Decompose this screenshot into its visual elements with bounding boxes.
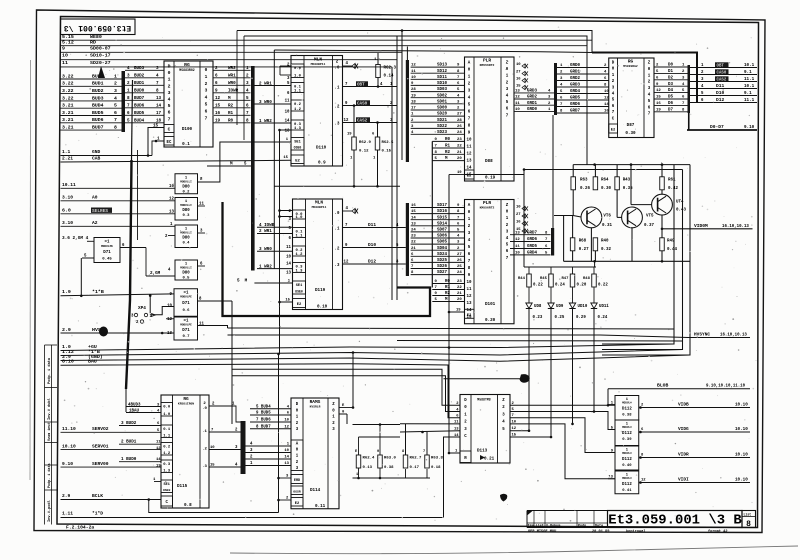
wire upper return bus B (244, 36, 587, 165)
svg-text:6: 6 (205, 108, 208, 114)
svg-text:.3: .3 (335, 123, 340, 127)
svg-text:10.10: 10.10 (62, 443, 76, 449)
svg-text:OSE0: OSE0 (294, 146, 302, 150)
wire VT5 emitter down (631, 228, 633, 261)
svg-text:SE1: SE1 (294, 141, 301, 145)
svg-text:7: 7 (168, 116, 171, 122)
svg-text:14: 14 (286, 263, 291, 267)
svg-text:OSE0: OSE0 (295, 290, 303, 294)
svg-text:0.31: 0.31 (602, 224, 612, 228)
svg-text:0.5: 0.5 (183, 277, 191, 281)
svg-text:11: 11 (467, 146, 472, 150)
svg-text:0.1: 0.1 (163, 428, 171, 432)
resistor R48 (592, 274, 597, 287)
svg-text:0.2: 0.2 (163, 446, 171, 450)
svg-text:13: 13 (286, 272, 291, 276)
svg-text:9.10,10.10,11.10: 9.10,10.10,11.10 (706, 385, 746, 389)
diode UD8 (528, 288, 530, 304)
svg-text:M588BP11: M588BP11 (311, 62, 326, 66)
svg-text:R61: R61 (668, 179, 676, 183)
D114 A pin cells (291, 440, 303, 471)
svg-text:9.10: 9.10 (62, 461, 73, 467)
svg-text:MODUL#: MODUL# (622, 402, 632, 405)
wire SERVO2 (61, 431, 162, 433)
svg-text:R43: R43 (623, 179, 631, 183)
svg-text:0.3: 0.3 (183, 214, 191, 218)
svg-text:E2: E2 (467, 314, 472, 318)
resistor R62.5 (375, 137, 380, 150)
wire SD20-27 (61, 66, 393, 68)
svg-text:Data: Data (595, 525, 603, 529)
scan edge curve bottom (230, 546, 798, 554)
D110 E2 cell (291, 155, 304, 164)
svg-text:8.10: 8.10 (62, 359, 74, 365)
svg-text:0.25: 0.25 (555, 316, 565, 320)
svg-text:10: 10 (467, 281, 472, 285)
wire D11 from D119 (343, 227, 406, 229)
svg-text:6: 6 (168, 110, 171, 116)
scan noise speckles (64, 26, 757, 521)
svg-text:2: 2 (168, 83, 171, 89)
wire GND long run (61, 355, 691, 361)
svg-text:5: 5 (114, 103, 117, 109)
wires R62.4 R63.0 top (358, 437, 360, 455)
svg-text:0.45: 0.45 (102, 258, 112, 262)
svg-text:1.1: 1.1 (163, 434, 171, 438)
resistor R47 (570, 274, 575, 287)
gate D112 0.41 body (615, 471, 639, 494)
D115 C cell (161, 496, 173, 506)
svg-text:OGSR: OGSR (293, 489, 301, 493)
svg-text:E2: E2 (297, 303, 302, 307)
svg-text:M588TM8: M588TM8 (477, 398, 491, 402)
svg-text:27: 27 (516, 70, 521, 74)
resistor R43 (615, 177, 620, 190)
bus bar D87 outputs (688, 65, 691, 113)
svg-text:VIDG: VIDG (678, 426, 689, 432)
PLA D101 body (465, 200, 515, 324)
wire riser to upper bus (236, 31, 238, 126)
diode column drops (528, 309, 530, 431)
svg-text:0.26: 0.26 (580, 187, 590, 191)
wire SERV00 (61, 466, 162, 468)
svg-text:Et3.059.001 \3: Et3.059.001 \3 (64, 23, 132, 32)
svg-text:XP4: XP4 (138, 306, 146, 311)
svg-text:0.44: 0.44 (667, 248, 677, 252)
riser x232 (231, 301, 233, 424)
svg-text:format A2: format A2 (708, 529, 728, 534)
svg-text:0.21: 0.21 (484, 457, 495, 462)
wire 10.11 to D80 (61, 187, 176, 189)
svg-text:R62.4: R62.4 (363, 457, 375, 461)
svg-text:D113: D113 (477, 449, 488, 454)
svg-text:0.9: 0.9 (318, 161, 326, 166)
resistor R44 (527, 274, 532, 287)
svg-text:1.3: 1.3 (163, 469, 171, 473)
wire D115 out .0 (209, 406, 241, 422)
wire GRD top bar to lower bar (552, 115, 554, 228)
wire CAS0 from D110 (343, 105, 398, 107)
svg-text:16: 16 (516, 220, 521, 224)
register D87 body (609, 58, 654, 138)
wire SELRES to D80 (61, 213, 176, 215)
svg-text:Inv.#-podl: Inv.#-podl (47, 499, 52, 522)
svg-text:A0: A0 (92, 195, 98, 201)
svg-text:F.2.104-2a: F.2.104-2a (66, 525, 94, 531)
svg-text:C: C (168, 127, 171, 133)
wire M into D119 SE1 (254, 282, 292, 284)
svg-text:BUD4: BUD4 (92, 103, 104, 109)
wire E2 input D114 (279, 499, 292, 501)
svg-text:5.15: 5.15 (62, 34, 74, 40)
D88 E2 cell (465, 170, 475, 179)
svg-text:1.0: 1.0 (296, 216, 304, 220)
resistor R62.3 (376, 65, 381, 78)
svg-text:EC: EC (167, 141, 172, 145)
wire upper return bus A (237, 31, 592, 53)
D87 E2 cell (609, 124, 618, 133)
D114 E2 cell (291, 498, 303, 507)
svg-text:11: 11 (285, 100, 290, 104)
diode UD10 (572, 288, 574, 304)
resistor R68 (570, 238, 575, 251)
E2 chain vertical (448, 175, 450, 454)
svg-text:KM556RT2: KM556RT2 (480, 63, 495, 67)
D114 ERD cell (291, 475, 303, 484)
multiplexer D119 body (293, 199, 343, 310)
svg-text:KM556RT2: KM556RT2 (480, 206, 495, 210)
svg-text:13: 13 (467, 302, 472, 306)
svg-text:3.21: 3.21 (62, 117, 74, 123)
svg-text:CAS2: CAS2 (357, 118, 368, 123)
wire *1*B to D71 pin9 (61, 294, 175, 296)
resistor R45 (549, 274, 554, 287)
wire BAU long run feeds D113 (61, 364, 461, 418)
resistor R40 (593, 238, 598, 251)
svg-text:SERVO1: SERVO1 (92, 443, 109, 449)
svg-text:1.12: 1.12 (62, 349, 74, 355)
svg-text:6.0: 6.0 (62, 208, 71, 214)
svg-text:5: 5 (205, 102, 208, 108)
svg-text:D12: D12 (368, 259, 376, 265)
gate D71 0.45 body (94, 238, 120, 263)
svg-text:3.22: 3.22 (62, 73, 74, 79)
title block main box (608, 511, 743, 528)
svg-text:3.21: 3.21 (62, 125, 74, 131)
svg-text:0.41: 0.41 (622, 489, 632, 493)
svg-text:Vzam inv#: Vzam inv# (47, 423, 52, 441)
svg-text:0.24: 0.24 (555, 284, 565, 288)
svg-text:E2: E2 (295, 502, 300, 506)
svg-text:0.2: 0.2 (294, 103, 302, 107)
top-left rotated title box Et3.059.001 (61, 19, 136, 35)
wire UT4 emitter to VIDOM (661, 215, 663, 238)
D114 OGSR cell (291, 486, 303, 495)
resistor R62.4 (356, 455, 361, 468)
svg-text:11: 11 (199, 203, 204, 207)
svg-text:1: 1 (157, 137, 160, 142)
transistor UT4 (652, 194, 673, 215)
resistor R62.9 (352, 137, 357, 150)
bus bar D115 to D114 thick (241, 421, 246, 474)
wire D101 E2 (449, 311, 465, 313)
svg-text:VID0M: VID0M (694, 223, 708, 229)
wire long mid bus d feeds D113 (232, 369, 460, 405)
svg-text:D80: D80 (182, 185, 190, 189)
svg-text:R68: R68 (579, 240, 587, 244)
svg-text:VT5: VT5 (646, 215, 654, 219)
svg-text:KR581IR0N: KR581IR0N (178, 403, 194, 406)
svg-text:0.37: 0.37 (644, 224, 654, 228)
svg-text:D0-D7: D0-D7 (710, 124, 724, 130)
wire to ink blot (444, 378, 530, 380)
svg-text:SERV00: SERV00 (92, 461, 109, 467)
wire R61 to UT4 collector (661, 190, 663, 194)
svg-text:2,GM: 2,GM (150, 271, 161, 276)
wire vertical enclosure left of D110 (273, 50, 275, 269)
wire E2 long run (465, 174, 525, 176)
enclosure box 1 (602, 165, 674, 344)
wire SD00-07 drop to D88 bus (401, 31, 403, 161)
svg-text:BAU: BAU (88, 359, 97, 365)
D113 out row2 to D112.2 (510, 412, 615, 430)
svg-text:9: 9 (62, 45, 65, 51)
svg-text:0.12: 0.12 (359, 150, 369, 154)
svg-text:MODULPE: MODULPE (180, 323, 192, 326)
svg-text:12: 12 (169, 197, 174, 201)
wire A0 to D80 (61, 200, 176, 202)
svg-text:0.20: 0.20 (577, 284, 587, 288)
wire HVSW to D71 pin13 (61, 332, 175, 334)
svg-text:2: 2 (205, 81, 208, 87)
svg-text:0.27: 0.27 (579, 248, 589, 252)
svg-text:SE1: SE1 (164, 483, 170, 487)
svg-text:UD11: UD11 (599, 305, 609, 309)
D113 R cell (460, 451, 471, 463)
svg-text:15: 15 (512, 434, 517, 438)
wire R68 R40 R49 bottoms (572, 251, 574, 261)
wire HVSYNC run (228, 335, 751, 338)
svg-text:3: 3 (205, 88, 208, 94)
svg-text:.1: .1 (335, 228, 340, 232)
svg-text:13: 13 (454, 428, 459, 432)
svg-text:0.10: 0.10 (317, 305, 328, 310)
svg-text:.2: .2 (335, 248, 340, 252)
bus bar D88 inputs (406, 60, 409, 162)
svg-text:MODULPE: MODULPE (101, 245, 113, 248)
svg-text:KVSRLR: KVSRLR (310, 406, 321, 409)
tap into D110 cell 1.3 (280, 129, 292, 131)
resistor R64 (593, 177, 598, 190)
svg-text:.0: .0 (335, 67, 340, 71)
svg-text:10.10: 10.10 (735, 453, 748, 458)
svg-text:HVSYNC: HVSYNC (694, 332, 710, 338)
page edge shadow left (29, 60, 32, 480)
svg-text:1.1: 1.1 (62, 149, 71, 155)
svg-text:0.15: 0.15 (382, 150, 392, 154)
wires R62.4 R63.0 bottom rail (353, 477, 431, 479)
wire into D71 0.7 pin12 (166, 318, 174, 320)
svg-text:0.30: 0.30 (601, 187, 611, 191)
svg-text:MODUL#: MODUL# (622, 426, 632, 429)
D115 SE1 stub (154, 481, 161, 483)
svg-text:R44: R44 (518, 277, 526, 281)
svg-text:5: 5 (168, 103, 171, 109)
D119 output .0 stub with cross (343, 210, 353, 212)
wire CAB to D110 E2 (61, 160, 292, 162)
D115 input cells (161, 403, 173, 417)
wire RD (61, 45, 588, 47)
register D115 body (161, 395, 209, 508)
svg-text:BUD2: BUD2 (92, 88, 104, 94)
svg-text:0.35: 0.35 (623, 187, 633, 191)
svg-text:R64: R64 (601, 179, 609, 183)
svg-text:4: 4 (168, 97, 171, 103)
wire CAS2 from D110 (343, 122, 398, 124)
svg-text:0.2: 0.2 (183, 190, 191, 194)
svg-text:0.40: 0.40 (622, 464, 632, 468)
D119 E2 cell (293, 299, 306, 308)
svg-text:SE1: SE1 (296, 284, 303, 288)
D113 out row4 to D112.4 (510, 424, 615, 479)
counter D113 body (460, 395, 510, 464)
svg-text:D88: D88 (485, 159, 493, 164)
svg-text:3.10: 3.10 (62, 195, 73, 201)
svg-text:0.14: 0.14 (384, 75, 394, 79)
D119 input cells (293, 210, 306, 219)
gate D112 0.39 body (615, 420, 639, 446)
D80 output stubs (198, 142, 292, 182)
wire E2 stub D119 (280, 301, 293, 303)
enclosure box 2 (602, 170, 683, 350)
wires RE pair bottom (405, 469, 407, 478)
svg-text:BLOB: BLOB (657, 383, 668, 389)
svg-text:10.10: 10.10 (735, 403, 748, 408)
svg-text:0.38: 0.38 (622, 414, 632, 418)
svg-text:8: 8 (114, 125, 117, 131)
wire *1*B long run (61, 350, 683, 356)
wire D10 from D119 (343, 247, 406, 249)
wire SD00-07 (61, 51, 403, 53)
svg-text:10.10: 10.10 (735, 427, 748, 432)
svg-text:R63.0: R63.0 (384, 457, 396, 461)
svg-text:12: 12 (467, 153, 472, 157)
svg-text:Inv.# dubl: Inv.# dubl (47, 397, 52, 420)
wire resistor bottom rail (274, 185, 400, 187)
svg-text:R48: R48 (583, 277, 591, 281)
wire long mid bus c (397, 340, 683, 343)
svg-text:D80: D80 (182, 209, 190, 213)
svg-text:D100: D100 (182, 127, 193, 132)
svg-text:0.4: 0.4 (183, 242, 191, 246)
wire ladder feed vertical (523, 170, 525, 268)
svg-text:5.12: 5.12 (62, 39, 74, 45)
svg-text:Podp. i data: Podp. i data (47, 463, 52, 488)
svg-text:R62.9: R62.9 (359, 141, 371, 145)
wire D115 .1 to bus (209, 431, 241, 433)
wire vertical chain x279 (279, 130, 281, 354)
bus bar GRD (554, 63, 557, 115)
wire *1*D long (61, 517, 443, 519)
svg-text:List: List (744, 513, 752, 517)
resistor R49 (660, 238, 665, 251)
svg-text:1.3: 1.3 (294, 127, 302, 131)
svg-text:0.32: 0.32 (601, 248, 611, 252)
gate D112 0.40 body (615, 446, 639, 470)
svg-text:16: 16 (516, 77, 521, 81)
svg-text:3.10: 3.10 (62, 220, 73, 226)
svg-text:2.9: 2.9 (62, 493, 71, 499)
svg-text:1.9: 1.9 (62, 289, 71, 295)
wire XP4 pin1 riser (149, 296, 151, 314)
svg-text:1.3: 1.3 (296, 270, 304, 274)
svg-text:11: 11 (454, 421, 459, 425)
svg-text:R63.8: R63.8 (431, 457, 443, 461)
svg-text:0.11: 0.11 (315, 504, 326, 509)
svg-text:BUD3: BUD3 (92, 95, 104, 101)
svg-text:RG: RG (628, 59, 634, 65)
svg-text:0.13: 0.13 (363, 466, 373, 470)
svg-text:E2: E2 (295, 159, 300, 163)
svg-text:SELRES: SELRES (92, 208, 108, 214)
RAM D114 body (291, 398, 339, 509)
svg-text:D112: D112 (622, 432, 632, 436)
svg-text:VT6: VT6 (603, 215, 611, 219)
resistor RE3.0 (425, 455, 430, 468)
svg-text:SD00-07: SD00-07 (90, 45, 111, 51)
logic gates D80 stack (175, 174, 198, 194)
wire WE80 (61, 39, 593, 41)
ink blot arrow top of BUD bus (98, 66, 105, 78)
wire A2 to D80 (61, 225, 176, 227)
svg-text:0.0: 0.0 (163, 406, 171, 410)
svg-text:3: 3 (114, 88, 117, 94)
diode UD9 (550, 288, 552, 304)
svg-text:.0: .0 (202, 407, 207, 411)
bus vertical thin left (137, 150, 139, 240)
svg-text:D115: D115 (177, 484, 188, 489)
D113 out row1 to D112.1 (510, 404, 615, 406)
svg-text:0.43: 0.43 (676, 209, 686, 213)
svg-text:14: 14 (454, 434, 459, 438)
svg-text:.3: .3 (335, 264, 340, 268)
svg-text:MODUL#: MODUL# (622, 477, 632, 480)
svg-text:.1: .1 (202, 430, 207, 434)
svg-text:UD9: UD9 (556, 305, 564, 309)
svg-text:7: 7 (205, 115, 208, 121)
svg-text:0.30: 0.30 (625, 131, 636, 136)
resistor RE2.7 (403, 455, 408, 468)
svg-text:0.20: 0.20 (485, 318, 496, 323)
svg-text:0.29: 0.29 (576, 316, 586, 320)
bus vertical thick left (132, 80, 133, 160)
wire D88 E2 run (449, 174, 465, 176)
svg-text:RG: RG (183, 396, 189, 402)
svg-text:D71: D71 (182, 302, 190, 306)
D100 C cell (164, 125, 174, 133)
D115 SE1 OSE0 cell (161, 480, 173, 493)
svg-text:.1: .1 (335, 87, 340, 91)
D113 out row5 (510, 430, 529, 432)
svg-text:R62.3: R62.3 (384, 67, 397, 71)
svg-text:12: 12 (344, 119, 349, 123)
wire D115 .2 to bus (209, 449, 241, 451)
svg-text:M5883RG2: M5883RG2 (623, 65, 638, 68)
svg-text:# Dokum.: # Dokum. (546, 524, 562, 529)
svg-text:0.3: 0.3 (163, 463, 171, 467)
svg-text:D: D (168, 64, 171, 70)
wire M under D100 (207, 165, 251, 167)
